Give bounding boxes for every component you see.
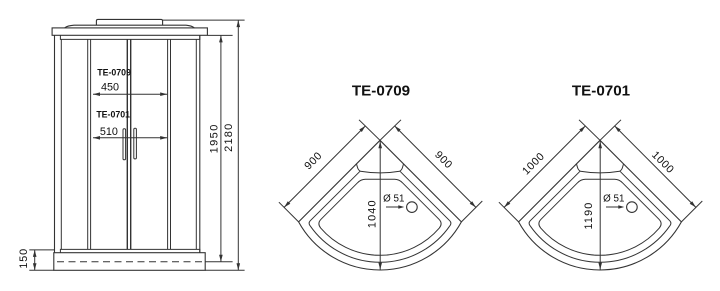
shower base (54, 253, 205, 271)
svg-text:TE-0701: TE-0701 (572, 83, 631, 100)
TE-0701 drain arrow line (606, 206, 622, 208)
TE-0701 depth up arrow (598, 141, 602, 148)
TE-0709 apex extension NW (359, 120, 380, 141)
svg-text:1000: 1000 (649, 149, 676, 176)
TE-0701 right corner extension (681, 201, 702, 222)
TE-0709 apex extension NE (380, 120, 401, 141)
TE-0701 corner seat edge (577, 164, 624, 173)
svg-text:1040: 1040 (366, 199, 378, 228)
TE-0701 left dim upper arrow (579, 126, 585, 132)
svg-text:450: 450 (101, 82, 119, 94)
TE-0709 right dim lower arrow (470, 201, 476, 207)
TE-0709 tray outer front arc (299, 222, 462, 270)
svg-text:TE-0701: TE-0701 (96, 110, 130, 120)
dimension 1950 down arrow (219, 255, 223, 262)
TE-0709 depth dimension line (379, 141, 381, 270)
TE-0701 tray inner rim (529, 171, 671, 262)
left fixed panel edge (87, 39, 89, 249)
TE-0709 right corner extension (461, 201, 482, 222)
cabin right wall outer edge (199, 35, 201, 252)
dimension 1950 top extension (208, 34, 233, 36)
dimension 450 right arrow (160, 92, 167, 96)
cabin left wall inner edge (60, 39, 62, 249)
dimension 2180 down arrow (237, 263, 241, 270)
TE-0701 tray bowl (539, 179, 661, 255)
TE-0709 depth up arrow (378, 141, 382, 148)
left door edge (90, 39, 92, 249)
dimension 2180 bottom extension (205, 269, 244, 271)
dimension 510 right arrow (160, 136, 167, 140)
svg-text:1190: 1190 (583, 201, 595, 229)
cabin roof skylight (96, 19, 162, 25)
left door handle (123, 129, 126, 160)
TE-0701 drain hole (627, 202, 638, 213)
cabin right wall inner edge (195, 39, 197, 249)
TE-0709 drain arrow line (386, 206, 402, 208)
TE-0701 left side dimension line (504, 126, 585, 208)
svg-text:150: 150 (18, 248, 30, 269)
TE-0701 tray outer outline (519, 140, 682, 222)
svg-text:2180: 2180 (223, 123, 235, 152)
TE-0709 left dim lower arrow (284, 201, 290, 207)
TE-0709 left side dimension line (284, 126, 365, 208)
TE-0701 left corner extension (499, 202, 519, 222)
right fixed panel edge (170, 39, 172, 249)
svg-text:Ø 51: Ø 51 (603, 193, 624, 204)
dimension 150 bottom extension (29, 269, 54, 271)
dimension 150 top extension (29, 249, 55, 251)
svg-text:TE-0709: TE-0709 (97, 68, 131, 78)
right door handle (134, 128, 137, 159)
dimension 1950 up arrow (219, 35, 223, 42)
dimension 2180 line (237, 20, 239, 270)
svg-text:900: 900 (302, 150, 325, 173)
svg-text:TE-0709: TE-0709 (352, 83, 410, 100)
dimension 450 line (93, 93, 167, 95)
dimension 2180 up arrow (237, 20, 241, 27)
dimension 510 left arrow (93, 136, 100, 140)
TE-0701 depth dimension line (599, 141, 601, 270)
svg-text:900: 900 (432, 149, 455, 172)
dimension 150 line (34, 250, 36, 270)
TE-0701 drain arrow head (618, 205, 624, 208)
TE-0709 left corner extension (279, 202, 299, 222)
TE-0709 left dim upper arrow (359, 126, 365, 132)
TE-0709 right dim upper arrow (395, 126, 401, 132)
TE-0709 drain arrow head (398, 205, 404, 208)
TE-0709 tray inner rim (309, 171, 451, 262)
TE-0701 right side dimension line (615, 126, 696, 208)
right door edge (167, 39, 169, 249)
TE-0709 depth down arrow (378, 263, 382, 270)
left door stile (126, 39, 128, 249)
svg-text:Ø 51: Ø 51 (383, 193, 404, 204)
base center dashed line (57, 261, 203, 263)
TE-0701 right dim upper arrow (615, 126, 621, 132)
dimension 150 down arrow (33, 263, 37, 270)
dimension 1950 line (220, 35, 222, 261)
TE-0709 tray outer outline (299, 140, 462, 222)
TE-0709 tray bowl (319, 179, 441, 255)
svg-text:1950: 1950 (209, 123, 221, 153)
dimension 450 left arrow (93, 92, 100, 96)
dimension 2180 top extension (163, 19, 245, 21)
svg-text:510: 510 (100, 126, 118, 138)
TE-0709 corner seat edge (357, 164, 404, 173)
right door stile (130, 39, 132, 249)
svg-text:1000: 1000 (520, 150, 547, 177)
cabin roof band (52, 28, 207, 35)
cabin roof dome profile (65, 25, 195, 28)
TE-0701 depth down arrow (598, 263, 602, 270)
cabin bottom track rail (60, 249, 199, 252)
TE-0709 drain hole (407, 202, 418, 213)
TE-0701 tray outer front arc (519, 222, 682, 270)
TE-0701 apex extension NE (600, 120, 621, 141)
TE-0701 left dim lower arrow (504, 201, 510, 207)
dimension 510 line (93, 137, 167, 139)
cabin left wall outer edge (54, 35, 56, 252)
dimension 1950 bottom extension (205, 261, 232, 263)
TE-0701 apex extension NW (579, 120, 600, 141)
cabin top track rail (60, 35, 199, 39)
TE-0701 right dim lower arrow (690, 201, 696, 207)
TE-0709 right side dimension line (395, 126, 476, 208)
dimension 150 up arrow (33, 250, 37, 257)
